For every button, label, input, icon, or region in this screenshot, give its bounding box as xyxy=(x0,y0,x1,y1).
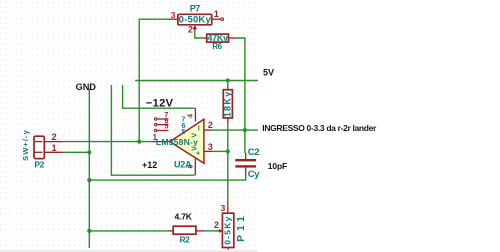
svg-text:5: 5 xyxy=(165,123,169,130)
svg-text:0-50Ky: 0-50Ky xyxy=(179,15,212,26)
svg-text:2: 2 xyxy=(51,132,56,142)
svg-text:4.7K: 4.7K xyxy=(175,212,193,222)
svg-text:+: + xyxy=(196,151,200,158)
svg-text:SW+/-y: SW+/-y xyxy=(21,129,30,161)
svg-text:3: 3 xyxy=(208,142,213,152)
svg-text:GND: GND xyxy=(76,82,97,92)
svg-text:R2: R2 xyxy=(180,235,191,245)
svg-text:3: 3 xyxy=(171,11,176,20)
svg-text:8: 8 xyxy=(188,164,195,168)
svg-text:Cy: Cy xyxy=(248,169,260,180)
svg-text:1: 1 xyxy=(214,9,219,19)
svg-text:5: 5 xyxy=(181,129,185,136)
svg-text:1: 1 xyxy=(51,143,56,153)
svg-text:+12: +12 xyxy=(142,160,157,170)
svg-text:2: 2 xyxy=(214,220,219,230)
svg-text:1: 1 xyxy=(153,133,158,142)
svg-text:V: V xyxy=(191,133,198,138)
svg-text:5V: 5V xyxy=(263,68,274,78)
svg-text:R6: R6 xyxy=(212,42,222,51)
svg-text:2: 2 xyxy=(208,120,213,130)
svg-text:−12V: −12V xyxy=(146,97,174,109)
svg-text:P7: P7 xyxy=(190,4,201,14)
svg-text:0-5Ky: 0-5Ky xyxy=(222,215,232,244)
svg-text:C2: C2 xyxy=(248,147,259,158)
svg-text:2: 2 xyxy=(188,25,193,35)
svg-text:3: 3 xyxy=(221,203,226,213)
svg-text:P11: P11 xyxy=(236,212,247,242)
svg-text:4: 4 xyxy=(188,114,195,118)
svg-text:18Ky: 18Ky xyxy=(223,91,233,118)
svg-text:10pF: 10pF xyxy=(268,161,287,171)
svg-text:P2: P2 xyxy=(34,159,44,169)
svg-text:INGRESSO 0-3.3 da r-2r lander: INGRESSO 0-3.3 da r-2r lander xyxy=(262,123,377,133)
